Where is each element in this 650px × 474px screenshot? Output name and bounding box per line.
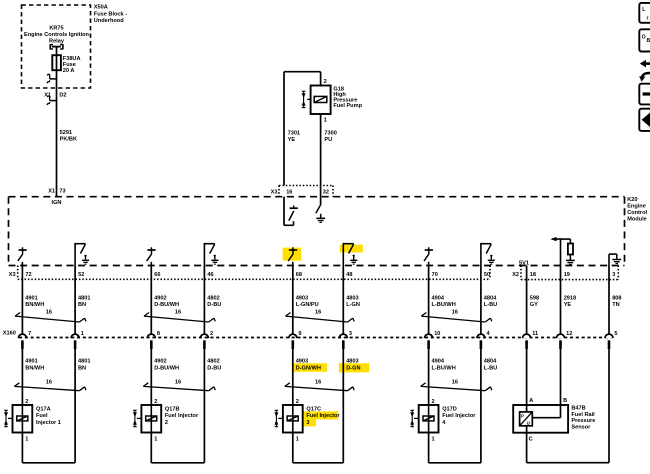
svg-text:16: 16 <box>315 309 321 315</box>
wire 7300 PU <box>320 114 322 197</box>
svg-text:C: C <box>529 436 533 442</box>
inline connector X160 dashed line <box>19 337 612 339</box>
svg-text:73: 73 <box>59 189 65 195</box>
svg-text:L-BU: L-BU <box>484 302 497 308</box>
svg-text:X50A: X50A <box>94 5 108 11</box>
twisted pair 16 marker below X160 pair 1 <box>14 380 86 391</box>
fuel injector Q17C valve <box>275 410 277 426</box>
connector X1 pin D2 labels <box>44 93 66 99</box>
highlight on wire 4803 D-GN label <box>339 363 369 372</box>
toolbar zoom out button <box>639 84 650 105</box>
wire 4804 L-BU <box>481 266 497 335</box>
svg-text:808: 808 <box>612 296 621 302</box>
svg-text:Fuel Injector: Fuel Injector <box>165 413 199 419</box>
svg-text:BN/WH: BN/WH <box>25 366 44 372</box>
toolbar previous button <box>639 109 650 131</box>
svg-text:Q17A: Q17A <box>36 407 51 413</box>
inline connector X160 pin 1 <box>71 331 84 349</box>
svg-text:X3: X3 <box>271 189 278 195</box>
svg-text:B47B: B47B <box>571 405 585 411</box>
wire pump feed top <box>284 72 321 186</box>
wire sensor pin C return <box>527 349 609 463</box>
twisted pair 16 marker above X160 pair 3 <box>286 309 355 322</box>
svg-text:4902: 4902 <box>154 359 166 365</box>
svg-text:Engine Controls Ignition: Engine Controls Ignition <box>24 32 90 38</box>
svg-text:2: 2 <box>25 399 28 405</box>
svg-text:Engine: Engine <box>627 204 646 210</box>
twisted pair 16 marker above X160 pair 2 <box>144 309 215 322</box>
svg-text:4803: 4803 <box>346 296 358 302</box>
svg-text:YE: YE <box>288 137 296 143</box>
twisted pair 16 marker below X160 pair 2 <box>143 380 215 391</box>
svg-text:4903: 4903 <box>296 296 308 302</box>
svg-text:4804: 4804 <box>484 359 497 365</box>
pressure sensor element <box>520 412 533 426</box>
svg-text:Fuel Rail: Fuel Rail <box>571 412 595 418</box>
fuel injector Q17B label <box>165 407 199 426</box>
svg-text:Fuel: Fuel <box>36 413 48 419</box>
svg-text:70: 70 <box>432 272 438 278</box>
injector 4 return driver with ground in module <box>480 244 495 266</box>
wire fuse to fuse block output <box>56 70 58 197</box>
svg-text:4803: 4803 <box>346 359 358 365</box>
svg-text:2918: 2918 <box>564 296 576 302</box>
svg-text:1: 1 <box>432 437 435 443</box>
svg-text:50: 50 <box>484 272 490 278</box>
svg-text:Q17B: Q17B <box>165 407 180 413</box>
wire 4902 D-BU/WH to injector <box>151 349 179 405</box>
svg-text:X160: X160 <box>3 330 16 336</box>
svg-text:10: 10 <box>434 331 440 337</box>
resistor in module <box>566 239 575 264</box>
svg-text:4802: 4802 <box>207 359 219 365</box>
terminal below fuse block <box>50 100 57 102</box>
svg-text:Fuel Injector: Fuel Injector <box>442 413 476 419</box>
svg-text:4801: 4801 <box>78 296 90 302</box>
connector X2 dotted box <box>521 266 618 280</box>
inline connector X160 pin 2 <box>200 331 213 349</box>
wire 4802 D-BU return <box>204 349 221 463</box>
inline connector X160 pin 4 <box>477 331 491 349</box>
svg-text:L-BU/WH: L-BU/WH <box>432 366 456 372</box>
twisted pair 16 marker above X160 pair 1 <box>15 309 86 322</box>
fuse F38UA label <box>63 56 81 74</box>
fuel injector Q17A <box>8 405 32 433</box>
svg-text:4901: 4901 <box>25 296 37 302</box>
fuel pump G18 box <box>311 86 331 115</box>
connector X3 top dotted box <box>279 186 333 197</box>
fuel injector Q17B <box>137 405 161 433</box>
svg-text:72: 72 <box>25 272 31 278</box>
svg-text:Module: Module <box>627 216 647 222</box>
wire injector 2 return loop <box>151 433 204 463</box>
svg-text:IGN: IGN <box>52 200 62 206</box>
svg-text:46: 46 <box>207 272 213 278</box>
toolbar back arrow icon <box>640 60 650 68</box>
wire 7301 YE label <box>288 131 300 143</box>
module K20 dashed box <box>9 197 625 266</box>
svg-text:O: O <box>642 35 646 41</box>
wire 4904 L-BU/WH to injector <box>429 349 456 405</box>
svg-text:52: 52 <box>78 272 84 278</box>
injector 1 control driver in module <box>18 247 27 265</box>
injector 1 return driver with ground in module <box>74 244 89 266</box>
svg-text:Relay: Relay <box>49 39 65 45</box>
svg-text:Fuel Injector: Fuel Injector <box>306 413 340 419</box>
svg-text:Pressure: Pressure <box>571 418 595 424</box>
wire 598 GY <box>527 266 540 335</box>
svg-text:D-BU: D-BU <box>207 302 221 308</box>
inline connector X160 pin 10 <box>425 331 441 349</box>
svg-text:PU: PU <box>324 137 332 143</box>
svg-text:7300: 7300 <box>324 131 336 137</box>
svg-text:L-GN: L-GN <box>346 302 360 308</box>
fuse block X50A dashed box <box>22 5 91 88</box>
fuse block X50A label <box>94 5 127 25</box>
svg-text:4802: 4802 <box>207 296 219 302</box>
wire 7300 PU label <box>324 131 336 143</box>
fuel injector Q17C <box>278 405 302 433</box>
svg-text:3: 3 <box>612 272 615 278</box>
wire 4901 BN/WH <box>22 266 44 335</box>
svg-text:P: P <box>521 414 524 419</box>
svg-text:D2: D2 <box>59 93 66 99</box>
fuel injector Q17D valve <box>411 410 413 426</box>
fuel injector Q17D <box>414 405 438 433</box>
wire 4802 D-BU <box>204 266 221 335</box>
svg-text:X1: X1 <box>48 189 55 195</box>
svg-text:BN: BN <box>78 302 86 308</box>
svg-text:D-GN/WH: D-GN/WH <box>296 366 321 372</box>
inline connector X160 pin 12 <box>557 331 573 349</box>
svg-text:Fuse Block -: Fuse Block - <box>94 11 127 17</box>
sensor return ground in module <box>609 254 621 265</box>
inline connector X160 pin 3 <box>339 331 352 349</box>
svg-text:BN: BN <box>78 366 86 372</box>
pressure sensor B47B box <box>513 405 568 433</box>
relay KR75 label <box>24 25 90 44</box>
svg-text:A: A <box>529 398 533 404</box>
svg-text:4801: 4801 <box>78 359 90 365</box>
svg-text:Fuel Pump: Fuel Pump <box>333 103 362 109</box>
svg-text:7: 7 <box>28 331 31 337</box>
svg-text:1: 1 <box>296 437 299 443</box>
svg-text:66: 66 <box>154 272 160 278</box>
injector 2 return driver with ground in module <box>204 244 219 266</box>
svg-text:4804: 4804 <box>484 296 497 302</box>
svg-text:1: 1 <box>324 118 327 124</box>
svg-text:32: 32 <box>323 189 329 195</box>
svg-text:4904: 4904 <box>432 296 445 302</box>
fuel injector Q17D label <box>442 407 476 426</box>
svg-text:19: 19 <box>564 272 570 278</box>
svg-text:L-BU: L-BU <box>484 366 497 372</box>
svg-text:16: 16 <box>286 189 292 195</box>
highlight on injector 3 return driver <box>340 245 363 253</box>
inline connector X160 pin 5 <box>605 331 618 349</box>
svg-text:GY: GY <box>530 302 538 308</box>
highlight on wire 4903 D-GN/WH label <box>294 363 327 372</box>
svg-text:1: 1 <box>25 437 28 443</box>
wire 4801 BN <box>75 266 90 335</box>
5V reference arrow in module <box>550 237 570 266</box>
wire relay to fuse <box>56 47 58 71</box>
toolbar button page icon <box>639 3 650 23</box>
svg-text:YE: YE <box>564 302 572 308</box>
svg-text:48: 48 <box>346 272 352 278</box>
svg-text:16: 16 <box>452 309 458 315</box>
highlight on injector 3 control driver <box>283 248 302 261</box>
fuel pump G18 label <box>333 86 362 109</box>
svg-text:11: 11 <box>532 331 538 337</box>
highlight on injector 3 number <box>303 419 316 426</box>
svg-text:4902: 4902 <box>154 296 166 302</box>
injector 3 return driver with ground in module <box>343 244 358 266</box>
svg-text:9: 9 <box>298 331 301 337</box>
svg-text:1: 1 <box>154 437 157 443</box>
svg-text:L: L <box>642 7 645 13</box>
fuel injector Q17A valve <box>5 410 7 426</box>
svg-text:3: 3 <box>349 331 352 337</box>
svg-text:TN: TN <box>612 302 619 308</box>
svg-text:K20: K20 <box>627 197 637 203</box>
svg-text:4901: 4901 <box>25 359 37 365</box>
fuel injector Q17B valve <box>134 410 136 426</box>
wire 4901 BN/WH to injector <box>22 349 44 405</box>
svg-text:5V1: 5V1 <box>519 260 529 266</box>
connector X1 pin 73 labels <box>48 189 65 195</box>
twisted pair 16 marker below X160 pair 3 <box>285 380 354 391</box>
highlight on Fuel Injector text <box>303 411 338 419</box>
svg-text:5: 5 <box>614 331 617 337</box>
toolbar curved arrow icon <box>639 73 650 82</box>
svg-text:8: 8 <box>157 331 160 337</box>
svg-text:L-GN/PU: L-GN/PU <box>296 302 319 308</box>
svg-text:2: 2 <box>165 420 168 426</box>
wire 4904 L-BU/WH <box>429 266 456 335</box>
fuel pump G18 solenoid <box>307 96 327 102</box>
svg-text:16: 16 <box>46 309 52 315</box>
injector 4 control driver in module <box>424 247 433 265</box>
fuse F38UA <box>52 55 61 70</box>
fuel pump G18 valve <box>303 91 305 107</box>
svg-text:3: 3 <box>306 420 309 426</box>
svg-text:Injector 1: Injector 1 <box>36 420 61 426</box>
wire 4903 D-GN/WH to injector <box>293 349 321 405</box>
svg-text:B: B <box>563 398 567 404</box>
svg-text:20 A: 20 A <box>63 68 75 74</box>
sensor B47B label <box>571 405 595 430</box>
svg-text:D-GN: D-GN <box>346 366 360 372</box>
inline connector X160 pin 9 <box>289 331 302 349</box>
svg-text:16: 16 <box>46 380 52 386</box>
svg-text:2: 2 <box>324 79 327 85</box>
svg-text:D-BU/WH: D-BU/WH <box>154 302 179 308</box>
svg-text:598: 598 <box>530 296 539 302</box>
svg-text:L-BU/WH: L-BU/WH <box>432 302 456 308</box>
svg-text:16: 16 <box>175 309 181 315</box>
wire 808 TN <box>609 266 622 335</box>
wire 4801 BN return <box>75 349 90 463</box>
twisted pair 16 marker below X160 pair 4 <box>421 380 492 391</box>
svg-text:KR75: KR75 <box>49 25 63 31</box>
wire 4803 D-GN return <box>343 349 360 463</box>
toolbar button details icon <box>639 29 650 51</box>
wire 5291 PK/BK label <box>60 130 77 143</box>
relay KR75 contact <box>50 44 63 49</box>
injector 2 control driver in module <box>147 247 156 265</box>
wire to sensor pin A <box>526 349 528 412</box>
inline connector X160 pin 7 <box>18 331 31 349</box>
wire injector 1 return loop <box>22 433 75 463</box>
svg-text:2: 2 <box>154 399 157 405</box>
wire 4803 L-GN <box>343 266 360 335</box>
svg-text:2: 2 <box>296 399 299 405</box>
svg-text:5291: 5291 <box>60 130 72 136</box>
svg-text:68: 68 <box>296 272 302 278</box>
connector X3 bottom dotted box <box>18 266 490 280</box>
terminal at fuse block output <box>50 78 57 80</box>
svg-text:X3: X3 <box>9 272 16 278</box>
svg-text:Control: Control <box>627 210 647 216</box>
svg-text:B: B <box>647 38 650 44</box>
svg-text:r: r <box>647 16 649 22</box>
svg-text:4903: 4903 <box>296 359 308 365</box>
svg-text:PK/BK: PK/BK <box>60 136 77 142</box>
wire injector 3 return loop <box>293 433 344 463</box>
wire injector 4 return loop <box>429 433 481 463</box>
wire 2918 YE <box>561 266 577 335</box>
pump ground driver inside module <box>316 197 325 223</box>
wire 4902 D-BU/WH <box>151 266 179 335</box>
pump control driver inside module <box>284 197 298 226</box>
svg-text:12: 12 <box>566 331 572 337</box>
svg-text:2: 2 <box>432 399 435 405</box>
svg-text:Q17D: Q17D <box>442 407 457 413</box>
svg-text:1: 1 <box>81 331 84 337</box>
fuel injector Q17A label <box>36 407 61 426</box>
svg-text:4904: 4904 <box>432 359 445 365</box>
svg-text:16: 16 <box>175 380 181 386</box>
svg-text:2: 2 <box>210 331 213 337</box>
svg-text:U: U <box>527 420 530 425</box>
injector 3 control driver in module <box>288 247 297 265</box>
svg-text:18: 18 <box>530 272 536 278</box>
svg-text:X2: X2 <box>512 272 519 278</box>
svg-text:16: 16 <box>315 380 321 386</box>
svg-text:7301: 7301 <box>288 131 300 137</box>
svg-text:D-BU/WH: D-BU/WH <box>154 366 179 372</box>
inline connector X160 pin 11 <box>523 331 539 349</box>
wire to sensor pin B <box>532 349 560 418</box>
svg-text:BN/WH: BN/WH <box>25 302 44 308</box>
svg-text:D-BU: D-BU <box>207 366 221 372</box>
wire 4903 L-GN/PU <box>293 266 319 335</box>
svg-text:16: 16 <box>452 380 458 386</box>
svg-text:Underhood: Underhood <box>94 18 124 24</box>
twisted pair 16 marker above X160 pair 4 <box>421 309 492 322</box>
svg-text:Q17C: Q17C <box>306 407 321 413</box>
fuel injector Q17C label <box>306 407 340 426</box>
wire 4804 L-BU return <box>481 349 497 463</box>
inline connector X160 pin 8 <box>147 331 160 349</box>
module K20 label <box>627 197 647 222</box>
svg-text:Sensor: Sensor <box>571 425 591 431</box>
